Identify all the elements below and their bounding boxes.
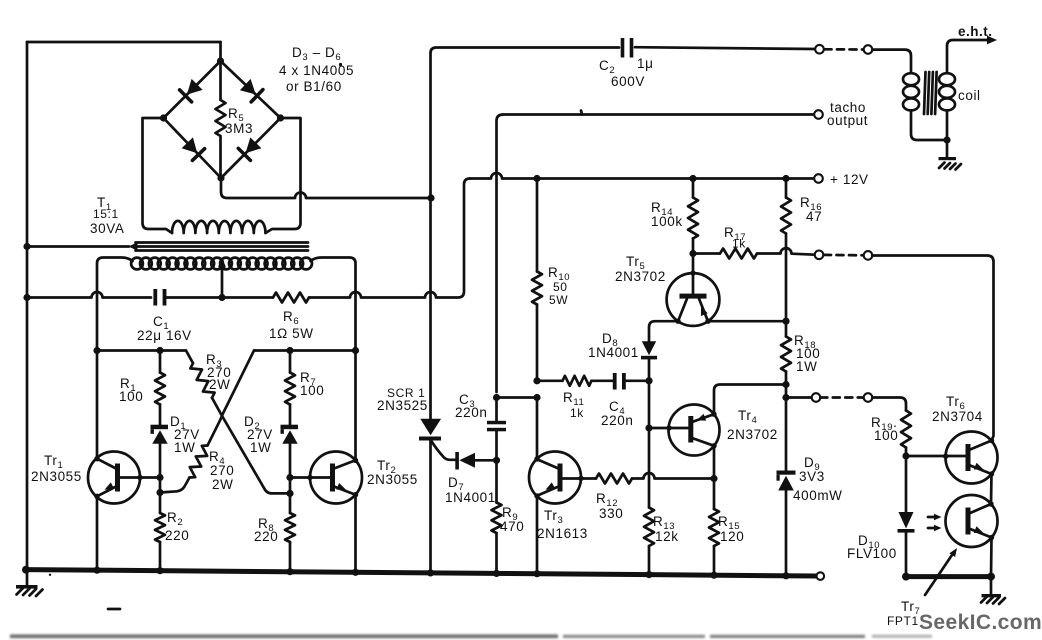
transistor Tr5 base bar bbox=[680, 294, 707, 299]
wire R4 to Tr1 base node bbox=[160, 478, 190, 493]
caption blur strip bbox=[10, 634, 932, 638]
pin Tr5 collector bbox=[675, 319, 680, 324]
wire R14 junction to R17 bbox=[693, 252, 720, 255]
wire R1 lead bbox=[159, 351, 162, 373]
wire connector 2 dashes bbox=[824, 254, 863, 257]
svg-text:12k: 12k bbox=[655, 529, 679, 544]
resistor R13 bbox=[644, 508, 654, 547]
wire secondary right lead bbox=[311, 258, 356, 351]
wire core pickup bbox=[27, 245, 129, 248]
resistor R16 bbox=[781, 198, 791, 234]
wire R14 to R17 row bbox=[692, 239, 695, 254]
capacitor C3 bottom plate bbox=[487, 428, 506, 432]
junction Tr5 emitter / R16 bbox=[782, 318, 789, 325]
wire MV rail left segment bbox=[97, 349, 186, 352]
pin Tr3 emitter bbox=[534, 493, 539, 498]
svg-text:1N4001: 1N4001 bbox=[588, 345, 639, 360]
wire R12 to Tr4 collector node bbox=[632, 473, 714, 479]
pin Tr3 collector bbox=[534, 456, 539, 461]
wire C1 to centre tap bbox=[166, 296, 222, 299]
junction ground rail x=355.5 bbox=[352, 569, 359, 576]
pin Tr2 collector bbox=[353, 458, 358, 463]
pin Tr7 collector bbox=[988, 501, 993, 506]
wire R17 to connector bbox=[757, 248, 815, 255]
resistor R1 bbox=[155, 373, 165, 405]
resistor R15 bbox=[709, 509, 719, 546]
terminal tacho output bbox=[814, 110, 823, 119]
junction ground rail x=160 bbox=[156, 567, 163, 574]
wire bridge-left to primary bbox=[143, 118, 173, 233]
svg-text:2N1613: 2N1613 bbox=[537, 526, 588, 541]
junction centre tap row bbox=[218, 294, 225, 301]
diode D10 (LED) bbox=[899, 512, 914, 529]
pin Tr5 emitter bbox=[705, 319, 710, 324]
transistor Tr3 base bar bbox=[558, 464, 563, 492]
wire R15 to ground rail bbox=[713, 546, 716, 575]
capacitor C3 top plate bbox=[487, 421, 506, 425]
wire secondary centre tap bbox=[221, 266, 224, 298]
resistor R11 bbox=[563, 376, 592, 386]
wire C4 to D8 node bbox=[625, 379, 649, 382]
wire D8 to C4 row bbox=[648, 359, 651, 380]
resistor R7 bbox=[285, 373, 295, 405]
transistor Tr5 emitter arrow bbox=[701, 306, 708, 316]
junction ground rail x=537 bbox=[533, 570, 540, 577]
transistor Tr2 emitter arrow bbox=[336, 483, 346, 490]
terminal e.h.t. connector left bbox=[815, 45, 824, 54]
svg-text:3V3: 3V3 bbox=[799, 469, 825, 484]
resistor R6 bbox=[273, 293, 309, 303]
wire Tr6 base lead bbox=[906, 455, 966, 458]
wire R13 to ground rail bbox=[648, 546, 651, 575]
wire connector 3 left bbox=[786, 396, 812, 399]
wire bridge-right to primary bbox=[266, 118, 301, 233]
arrow core pickup bbox=[129, 242, 138, 251]
diode D1 (zener) bbox=[151, 425, 169, 430]
junction R10 top bbox=[533, 175, 540, 182]
junction ground rail x=496.5 bbox=[493, 570, 500, 577]
wire to R2 bbox=[159, 493, 162, 514]
transistor Tr7 body bbox=[946, 495, 998, 547]
transistor Tr7 base bar bbox=[966, 508, 971, 535]
wire to R8 bbox=[289, 493, 292, 513]
wire Tr3 base lead bbox=[563, 477, 597, 480]
speck near D6 label bbox=[339, 63, 342, 66]
diode D5 (bridge bottom-left arm) bbox=[182, 137, 198, 153]
node bridge top bbox=[217, 57, 224, 64]
junction Tr4 collector / R15 bbox=[710, 475, 717, 482]
pin Tr1 base at circle bbox=[137, 475, 142, 480]
wire Tr1 collector up bbox=[96, 351, 99, 459]
svg-text:600V: 600V bbox=[611, 74, 645, 89]
resistor R17 bbox=[720, 249, 757, 259]
node bridge left bbox=[160, 114, 167, 121]
wire top-left rail bbox=[27, 41, 221, 44]
transformer T1 primary winding bbox=[172, 221, 266, 233]
wire R10 top lead bbox=[536, 179, 539, 272]
wire D10 to right rail bbox=[905, 533, 908, 577]
wire R18 lead bbox=[785, 321, 788, 336]
light arrow 1 into Tr7 bbox=[928, 516, 937, 519]
resistor R18 bbox=[781, 337, 791, 372]
stray mark bbox=[108, 608, 120, 611]
transistor Tr5 emitter stroke bbox=[699, 299, 708, 322]
resistor R5 bbox=[216, 61, 226, 178]
wire Tr1 emitter down bbox=[96, 496, 99, 570]
svg-text:2N3055: 2N3055 bbox=[367, 472, 418, 487]
svg-text:100: 100 bbox=[300, 383, 324, 398]
pin Tr1 collector bbox=[94, 456, 99, 461]
pin Tr6 base at circle bbox=[943, 454, 948, 459]
svg-text:1μ: 1μ bbox=[637, 56, 654, 71]
svg-text:120: 120 bbox=[720, 529, 744, 544]
pin Tr4 base at circle bbox=[666, 425, 671, 430]
wire Tr6 emitter to Tr7 collector bbox=[990, 474, 993, 504]
wire R19 to base node bbox=[905, 448, 908, 457]
capacitor C4 left plate bbox=[613, 373, 617, 390]
resistor R2 bbox=[155, 513, 165, 542]
diode D2 (zener) bbox=[281, 425, 299, 430]
arrow e.h.t. output bbox=[987, 36, 997, 45]
svg-text:22μ 16V: 22μ 16V bbox=[137, 328, 192, 343]
svg-text:2W: 2W bbox=[212, 477, 233, 492]
wire connector1 to coil bbox=[872, 50, 911, 73]
wire Tr4 base lead bbox=[649, 427, 688, 430]
svg-text:30VA: 30VA bbox=[90, 221, 124, 236]
transistor Tr5 body bbox=[667, 273, 720, 326]
transistor Tr1 collector stroke bbox=[97, 459, 116, 469]
diode D7 bbox=[455, 452, 459, 470]
junction C4 row right bbox=[645, 377, 652, 384]
transistor Tr2 emitter stroke bbox=[334, 487, 356, 495]
transistor Tr2 collector stroke bbox=[334, 460, 356, 468]
wire R10 bottom lead bbox=[536, 305, 539, 381]
wire C4 row junction to Tr4 base bbox=[648, 381, 651, 428]
junction D7/C3/R9 bbox=[493, 457, 500, 464]
wire R16 lead bbox=[785, 179, 788, 198]
junction ground rail x=714 bbox=[710, 572, 717, 579]
wire connector 2 to Tr6 collector bbox=[872, 256, 993, 441]
junction centre tap at winding bbox=[218, 263, 225, 270]
wire bridge arm bottom-left bbox=[164, 118, 222, 178]
junction R4 lower node bbox=[156, 489, 163, 496]
wire R1 to D1 bbox=[159, 405, 162, 425]
transformer T1 secondary winding bbox=[131, 258, 143, 270]
transistor Tr6 base bar bbox=[966, 444, 971, 471]
capacitor C1 left plate bbox=[153, 289, 157, 306]
svg-text:3M3: 3M3 bbox=[225, 121, 253, 136]
wire tacho line bbox=[497, 115, 815, 393]
junction R14 top bbox=[689, 175, 696, 182]
wire to D9 bbox=[785, 398, 788, 471]
svg-text:100: 100 bbox=[119, 389, 143, 404]
wire D9 to ground rail bbox=[785, 491, 788, 576]
pin Tr6 collector bbox=[989, 438, 994, 443]
transistor Tr3 emitter arrow bbox=[546, 482, 556, 489]
wire R18 to nodes bbox=[785, 372, 788, 398]
svg-text:FLV100: FLV100 bbox=[847, 546, 897, 561]
transistor Tr1 base bar bbox=[115, 464, 120, 492]
wire Tr1 base lead bbox=[120, 476, 160, 479]
junction ground rail x=649 bbox=[645, 571, 652, 578]
wire R15 lead bbox=[713, 479, 716, 510]
svg-text:400mW: 400mW bbox=[793, 488, 843, 503]
wire C2 rail right bbox=[635, 47, 815, 49]
transistor Tr1 emitter stroke bbox=[97, 487, 116, 497]
wire R3 to Tr2 base node bbox=[212, 398, 290, 494]
junction right rail right bbox=[987, 573, 995, 581]
svg-text:100k: 100k bbox=[651, 214, 683, 229]
wire R16 to Tr5 emitter node bbox=[785, 234, 788, 322]
wire Tr1 base node to R4 node bbox=[159, 478, 162, 493]
ground (bottom left) bbox=[26, 570, 29, 585]
svg-text:270: 270 bbox=[210, 463, 234, 478]
wire Tr4 base chain down bbox=[648, 428, 651, 508]
svg-text:50: 50 bbox=[553, 280, 568, 294]
resistor R8 bbox=[285, 513, 295, 542]
junction link on R10 line bbox=[533, 394, 540, 401]
junction bridge-link / SCR line bbox=[427, 194, 434, 201]
wire Tr4 emitter up to R18 node bbox=[714, 385, 786, 415]
coil core lines bbox=[924, 72, 937, 114]
terminal connector 2 left bbox=[815, 251, 824, 260]
transistor Tr2 body bbox=[310, 452, 362, 504]
junction MV rail left bbox=[93, 347, 100, 354]
wire SCR anode bbox=[429, 198, 432, 419]
junction Tr4 emitter node bbox=[782, 381, 789, 388]
svg-text:coil: coil bbox=[958, 88, 981, 103]
wire R7 to D2 bbox=[289, 405, 292, 425]
svg-text:1Ω 5W: 1Ω 5W bbox=[269, 326, 314, 341]
wire Tr5 emitter to R16 line bbox=[708, 320, 786, 323]
transistor Tr4 body bbox=[669, 405, 720, 456]
pin Tr1 emitter bbox=[94, 494, 99, 499]
light arrow 2 into Tr7 bbox=[928, 527, 937, 530]
wire coil ground stub bbox=[946, 140, 949, 157]
wire bridge arm top-left bbox=[164, 61, 221, 118]
terminal connector 3 left bbox=[812, 393, 821, 402]
svg-text:220: 220 bbox=[254, 529, 278, 544]
wire D2 to Tr2 base node bbox=[289, 444, 292, 478]
wire coil secondary bottom bbox=[946, 111, 949, 141]
wire left ground rail bbox=[26, 42, 29, 570]
wire coil primary bottom bbox=[911, 111, 947, 141]
wire R11 to C4 bbox=[592, 379, 614, 382]
transistor Tr7 emitter arrow bbox=[974, 526, 984, 533]
junction coil ground bbox=[943, 136, 950, 143]
transistor Tr4 collector stroke bbox=[692, 438, 714, 446]
wire R2 to ground rail bbox=[159, 542, 162, 571]
wire connector 3 to R19 bbox=[872, 398, 906, 411]
pin Tr2 base at circle bbox=[307, 475, 312, 480]
svg-text:100: 100 bbox=[874, 428, 898, 443]
transistor Tr5 collector stroke bbox=[678, 299, 687, 322]
junction ground rail x=786 bbox=[782, 572, 789, 579]
junction Tr2 base node bbox=[286, 474, 293, 481]
wire D7 to C3 line bbox=[475, 459, 497, 462]
svg-text:2N3055: 2N3055 bbox=[31, 469, 82, 484]
svg-text:SeekIC.com: SeekIC.com bbox=[919, 611, 1042, 634]
pin Tr2 emitter bbox=[353, 492, 358, 497]
wire R10 line to Tr3 bbox=[536, 398, 539, 459]
wire Tr5 collector to D8 bbox=[649, 321, 678, 341]
wire bridge bottom to C2/SCR line bbox=[221, 178, 431, 198]
resistor R10 bbox=[532, 272, 542, 305]
wire D10 top lead bbox=[905, 456, 908, 512]
diode D4 (bridge top-right arm) bbox=[240, 79, 256, 95]
transistor Tr3 emitter stroke bbox=[537, 487, 559, 496]
junction R1 top bbox=[156, 347, 163, 354]
wire +12V rail bbox=[470, 173, 814, 178]
junction ground rail x=430.5 bbox=[427, 569, 434, 576]
junction Tr1 base node bbox=[156, 474, 163, 481]
svg-text:e.h.t.: e.h.t. bbox=[958, 24, 993, 39]
svg-text:1W: 1W bbox=[250, 440, 271, 455]
transistor Tr6 emitter stroke bbox=[969, 465, 992, 474]
svg-text:2N3704: 2N3704 bbox=[932, 409, 983, 424]
junction R11 row left bbox=[533, 377, 540, 384]
wire bridge arm top-right bbox=[221, 61, 281, 118]
thyristor SCR1 bbox=[420, 419, 441, 436]
wire R9 to ground rail bbox=[495, 533, 498, 573]
wire R6 row right bbox=[309, 179, 470, 298]
resistor R3 bbox=[186, 351, 215, 398]
wire Tr2 collector rail to R4 bbox=[208, 351, 255, 446]
wire R8 to ground rail bbox=[289, 542, 292, 572]
resistor R4 bbox=[190, 446, 208, 478]
terminal connector 3 right bbox=[864, 393, 873, 402]
wire SCR cathode down bbox=[429, 441, 432, 573]
svg-text:220n: 220n bbox=[455, 405, 487, 420]
capacitor C1 right plate bbox=[163, 289, 167, 306]
wire MV rail right segment bbox=[254, 349, 356, 352]
resistor R9 bbox=[492, 503, 502, 534]
wire R9 lead bbox=[495, 460, 498, 502]
junction Tr4 base bbox=[645, 424, 652, 431]
ground (coil) bbox=[939, 157, 957, 160]
wire Tr2 base node to R3 node bbox=[289, 478, 292, 494]
node bridge right bbox=[277, 114, 284, 121]
resistor R19 bbox=[901, 411, 911, 448]
junction ground rail left end bbox=[22, 566, 30, 574]
svg-text:470: 470 bbox=[500, 519, 524, 534]
wire Tr7 emitter down bbox=[990, 538, 993, 577]
transistor Tr1 emitter arrow bbox=[105, 482, 115, 489]
wire Tr2 emitter down bbox=[354, 495, 357, 573]
junction pickup on ground rail bbox=[23, 243, 30, 250]
junction R7 top bbox=[286, 347, 293, 354]
junction R17 row left bbox=[689, 250, 696, 257]
wire Tr3 emitter down bbox=[536, 496, 539, 574]
wire D1 to Tr1 base node bbox=[159, 444, 162, 478]
svg-text:330: 330 bbox=[599, 506, 623, 521]
svg-text:2N3702: 2N3702 bbox=[727, 427, 778, 442]
transistor Tr4 emitter arrow bbox=[697, 414, 707, 421]
wire connector 3 dashes bbox=[820, 396, 863, 399]
junction R3 lower node bbox=[286, 490, 293, 497]
pin Tr4 emitter bbox=[711, 412, 716, 417]
diode D6 (bridge bottom-right arm) bbox=[246, 137, 262, 153]
transistor Tr3 collector stroke bbox=[537, 459, 559, 468]
wire right ground rail bbox=[906, 574, 991, 579]
wire C3 bottom lead bbox=[495, 431, 498, 460]
transistor Tr7 collector stroke bbox=[969, 504, 991, 514]
wire Tr5 base lead bbox=[692, 254, 695, 294]
svg-text:47: 47 bbox=[806, 209, 822, 224]
svg-text:or B1/60: or B1/60 bbox=[286, 79, 342, 94]
svg-text:1N4001: 1N4001 bbox=[445, 490, 496, 505]
wire main ground rail bbox=[26, 570, 817, 576]
wire Tr4 collector down bbox=[713, 446, 716, 479]
wire R7 lead bbox=[289, 351, 292, 373]
junction R16 top bbox=[782, 175, 789, 182]
pin Tr5 base at circle bbox=[690, 270, 695, 275]
wire coil secondary to e.h.t. bbox=[947, 40, 988, 73]
junction C1 row on ground rail bbox=[23, 294, 30, 301]
coil primary winding bbox=[903, 73, 919, 85]
svg-text:+ 12V: + 12V bbox=[830, 172, 869, 187]
transistor Tr7 emitter stroke bbox=[969, 529, 992, 538]
transistor Tr4 emitter stroke bbox=[692, 414, 714, 422]
terminal +12V bbox=[814, 174, 823, 183]
wire R11 lead bbox=[537, 379, 563, 382]
terminal e.h.t. connector right bbox=[864, 45, 873, 54]
wire C1 row left bbox=[27, 292, 151, 298]
junction R19 / D10 / Tr6 base bbox=[902, 452, 909, 459]
transistor Tr1 body bbox=[88, 452, 140, 504]
svg-text:1k: 1k bbox=[570, 406, 584, 420]
terminal connector 2 right bbox=[864, 251, 873, 260]
svg-text:1W: 1W bbox=[174, 440, 195, 455]
wire centre tap to R6 bbox=[222, 296, 273, 299]
wire C3 link to R10 line bbox=[497, 396, 538, 399]
svg-text:220n: 220n bbox=[601, 413, 633, 428]
wire C3 top lead bbox=[495, 398, 498, 421]
wire connector 1 dashes bbox=[825, 48, 864, 51]
pin Tr4 collector bbox=[711, 443, 716, 448]
transistor Tr6 collector stroke bbox=[969, 441, 992, 451]
wire right ground stub bbox=[990, 577, 993, 594]
junction ground rail x=290 bbox=[286, 568, 293, 575]
wire bridge top lead bbox=[219, 42, 222, 61]
coil secondary winding bbox=[939, 73, 955, 85]
terminal ground rail end bbox=[817, 572, 825, 580]
svg-text:output: output bbox=[827, 113, 868, 128]
speck near rail bbox=[49, 574, 51, 576]
svg-text:2W: 2W bbox=[209, 377, 230, 392]
svg-text:2N3702: 2N3702 bbox=[615, 269, 666, 284]
ground (right) bbox=[982, 594, 1002, 597]
resistor R14 bbox=[688, 198, 698, 239]
svg-text:220: 220 bbox=[165, 528, 189, 543]
pin Tr3 base at circle bbox=[578, 476, 583, 481]
junction connector 3 node bbox=[782, 394, 789, 401]
capacitor C2 left plate bbox=[621, 38, 625, 58]
wire C2 rail left bbox=[431, 48, 620, 199]
transistor Tr4 base bar bbox=[688, 416, 693, 443]
svg-text:15:1: 15:1 bbox=[93, 207, 119, 221]
resistor R12 bbox=[596, 474, 632, 484]
wire SCR gate bbox=[431, 441, 456, 460]
transistor Tr3 body bbox=[529, 452, 581, 504]
wire Tr2 base lead bbox=[290, 476, 330, 479]
svg-text:FPT1: FPT1 bbox=[887, 614, 919, 628]
wire Tr2 collector up bbox=[354, 351, 357, 461]
transistor Tr2 base bar bbox=[330, 464, 335, 492]
arrow Tr7 pointer bbox=[925, 552, 954, 595]
pin Tr7 emitter bbox=[989, 535, 994, 540]
transistor Tr6 emitter arrow bbox=[974, 463, 984, 470]
